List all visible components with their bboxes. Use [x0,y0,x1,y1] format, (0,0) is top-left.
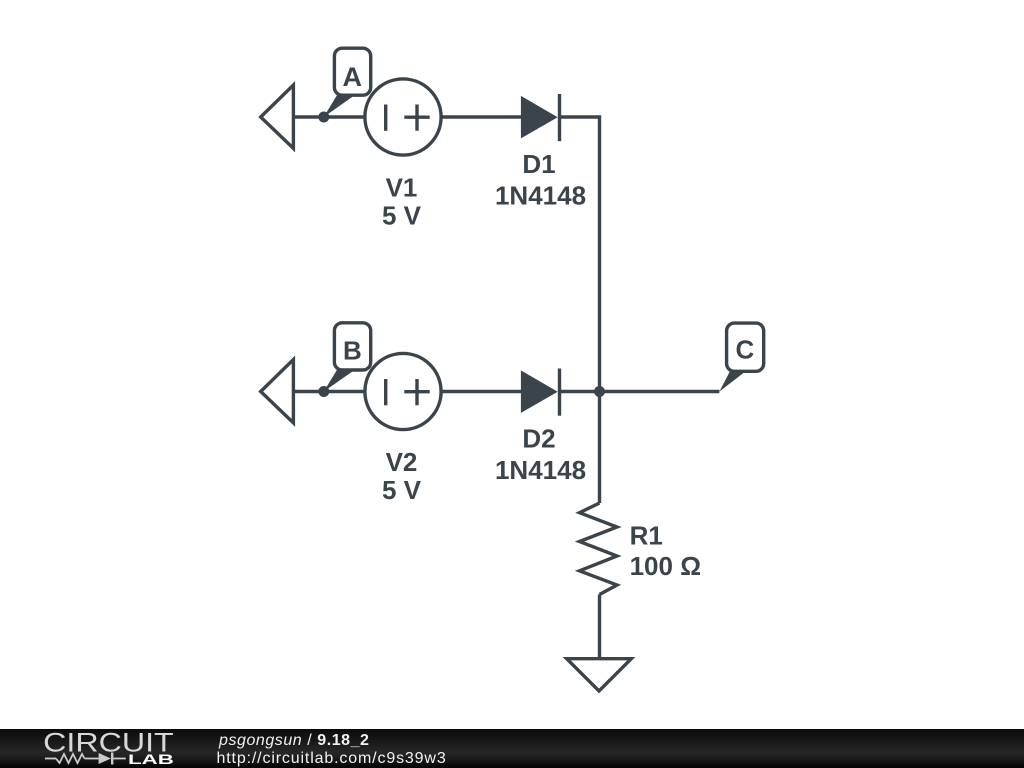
wire D1 to corner and down to resistor [560,117,600,503]
svg-text:R1: R1 [630,520,663,550]
node tag A tail [324,94,356,117]
logo schematic motif: wire resistor diode [45,753,126,765]
svg-text:1N4148: 1N4148 [495,455,586,485]
node tag A box [334,48,370,95]
wire D2 to node C [560,390,720,393]
svg-text:psgongsun / 9.18_2: psgongsun / 9.18_2 [218,732,370,749]
svg-text:5 V: 5 V [382,201,422,231]
svg-text:V2: V2 [386,447,418,477]
svg-text:http://circuitlab.com/c9s39w3: http://circuitlab.com/c9s39w3 [217,750,447,767]
V2 minus bar [384,379,387,405]
V1 plus sign [404,105,429,131]
svg-text:5 V: 5 V [382,475,422,505]
svg-text:D1: D1 [522,149,555,179]
junction dot node A [318,112,329,123]
svg-text:A: A [342,62,362,92]
wire terminal B to V2 [293,390,365,393]
voltage source V2 circle [365,353,441,429]
input terminal A [261,85,294,148]
svg-text:D2: D2 [522,423,555,453]
junction dot node B [318,386,329,397]
diode D2 cathode bar [558,369,561,416]
node tag B tail [324,369,356,392]
junction dot node C [594,386,605,397]
svg-text:B: B [343,336,362,366]
voltage source V1 circle [365,79,441,155]
diode D1 triangle [521,96,558,138]
ground [567,659,632,691]
diode D1 cathode bar [558,94,561,141]
diode D2 triangle [521,370,558,413]
svg-text:100 Ω: 100 Ω [630,551,701,581]
node tag C tail [719,370,747,391]
resistor R1 zigzag [580,503,618,595]
svg-text:1N4148: 1N4148 [495,180,586,210]
wire V2 to D2 [441,390,521,393]
wire terminal A to V1 [293,115,365,118]
svg-text:V1: V1 [386,173,418,203]
wire resistor to ground [598,595,601,659]
node tag C box [727,323,764,371]
node tag B box [334,323,370,370]
V2 plus sign [404,379,429,405]
wire V1 to D1 [441,115,521,118]
input terminal B [261,360,294,423]
footer bar [0,729,1024,768]
svg-text:LAB: LAB [128,752,174,767]
V1 minus bar [384,105,387,131]
svg-text:C: C [736,335,755,365]
